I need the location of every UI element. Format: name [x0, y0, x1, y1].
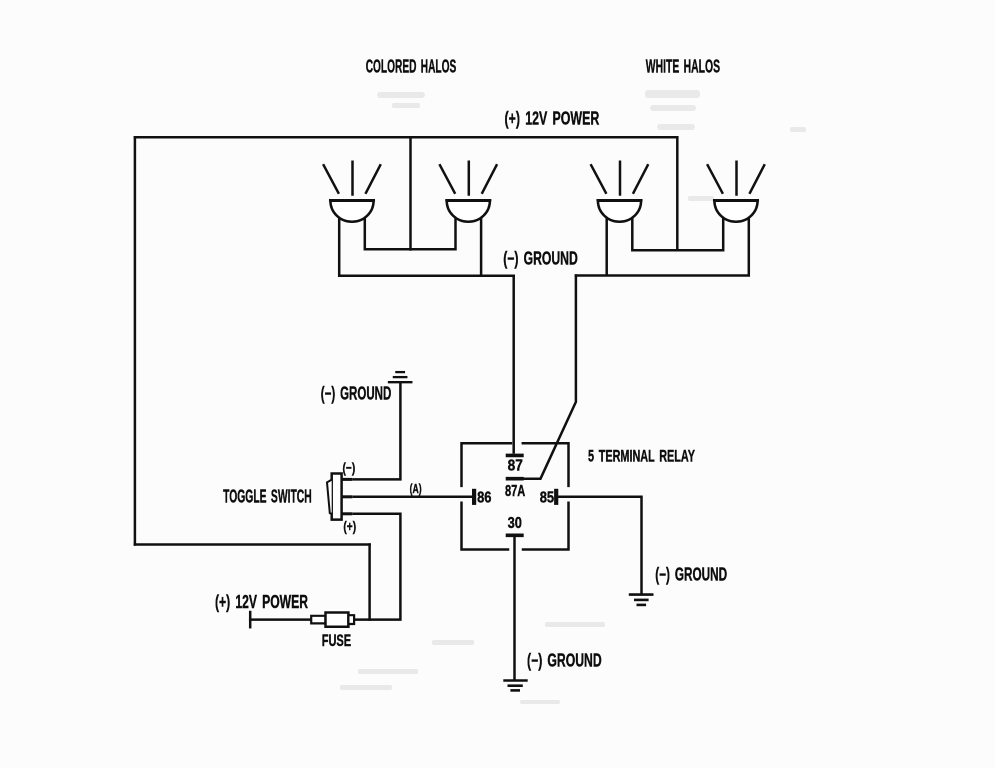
wire: switch (+) down to fuse line: [354, 514, 401, 620]
svg-text:(+) 12V POWER: (+) 12V POWER: [505, 108, 600, 128]
wire: left main horizontal to tee: [135, 543, 370, 546]
lamp L4 white halo right: [708, 162, 765, 222]
svg-text:WHITE HALOS: WHITE HALOS: [646, 57, 720, 77]
svg-text:85: 85: [540, 490, 555, 507]
svg-text:86: 86: [477, 490, 492, 507]
svg-text:COLORED HALOS: COLORED HALOS: [366, 57, 457, 77]
fuse left cap: [311, 616, 325, 624]
wire: drop to white halos pair: [676, 137, 679, 250]
switch terminal dashes: [343, 479, 351, 513]
svg-text:(+): (+): [343, 518, 356, 534]
svg-text:5 TERMINAL RELAY: 5 TERMINAL RELAY: [588, 446, 695, 465]
svg-text:(+) 12V POWER: (+) 12V POWER: [215, 592, 308, 612]
relay pin 30 terminal bar: [508, 533, 522, 537]
relay pin 86 terminal bar: [472, 491, 476, 503]
relay pin 85 terminal bar: [554, 491, 558, 503]
relay pin 87 terminal bar: [508, 454, 522, 458]
svg-text:87: 87: [508, 458, 523, 475]
svg-text:TOGGLE SWITCH: TOGGLE SWITCH: [223, 487, 312, 507]
lamp L2 colored halo right: [440, 162, 497, 222]
faint smudge artifacts: [340, 90, 806, 704]
fuse terminal tick: [249, 612, 252, 627]
svg-text:FUSE: FUSE: [322, 631, 352, 650]
svg-text:(−): (−): [343, 459, 356, 475]
svg-text:87A: 87A: [505, 483, 525, 500]
ground symbol at relay 30: [505, 681, 527, 691]
wire: colored bus down to relay 87: [512, 276, 515, 452]
lamp L1 colored halo left: [324, 162, 381, 222]
wire: tee down to fuse line: [368, 545, 371, 620]
relay pin 87A terminal bar: [508, 477, 522, 481]
toggle switch body: [332, 474, 342, 520]
wire: relay 85 to ground: [559, 497, 642, 593]
ground symbol at relay 85: [630, 595, 652, 605]
wire: drop to colored halos pair: [409, 137, 412, 249]
wire: white pair inner connector: [632, 214, 723, 250]
svg-text:(−) GROUND: (−) GROUND: [655, 564, 727, 584]
wire: relay 30 to ground: [513, 537, 516, 678]
svg-text:(−) GROUND: (−) GROUND: [527, 650, 602, 670]
ground symbol at switch (inverted): [389, 372, 411, 382]
svg-text:30: 30: [508, 515, 522, 532]
wire: white bus down + diagonal to relay 87A: [523, 276, 576, 479]
toggle switch lever: [327, 480, 332, 514]
wire: 12V power to fuse: [250, 618, 311, 621]
wire: left main vertical: [134, 137, 137, 544]
fuse right cap: [348, 615, 354, 624]
wire: white pair outer legs and bus: [576, 214, 749, 276]
fuse body: [326, 613, 349, 627]
svg-text:(A): (A): [410, 482, 422, 496]
wire: colored pair outer legs and ground bus: [339, 214, 514, 276]
wire: (+) 12V power bus top: [135, 136, 677, 139]
lamp L3 white halo left: [591, 162, 648, 222]
wire: switch middle to relay 86: [354, 496, 472, 499]
svg-text:(−) GROUND: (−) GROUND: [503, 249, 578, 269]
svg-text:(−) GROUND: (−) GROUND: [321, 384, 392, 404]
relay box outline: [462, 443, 569, 549]
wire: switch (-) to ground: [354, 384, 401, 479]
wire: colored pair inner connector: [365, 214, 456, 249]
